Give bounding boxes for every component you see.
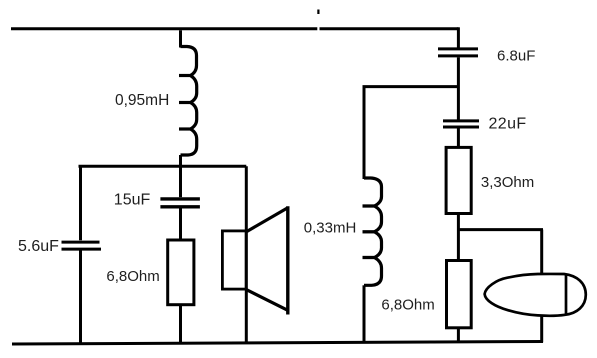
wire junction horizontal to tweeter	[458, 228, 543, 231]
svg-text:0,33mH: 0,33mH	[304, 220, 357, 237]
wire top right vertical into C 6.8uF	[457, 27, 460, 47]
inductor L2 tick 3	[363, 256, 375, 259]
wire from 15uF to R1	[179, 209, 182, 241]
inductor L2 tick 1	[363, 204, 375, 207]
wire tweeter vertical upper	[540, 230, 543, 275]
wire from R3 to bottom bus	[457, 328, 460, 342]
inductor L1 0,95mH coil	[181, 47, 197, 156]
resistor R3 6,8Ohm right box	[447, 261, 472, 328]
wire from 22uF to R2	[457, 128, 460, 147]
wire from R1 to bottom bus	[179, 305, 182, 344]
node tick artifact top center	[317, 10, 319, 15]
tweeter LS2 body	[485, 274, 586, 316]
resistor R1 6,8Ohm left box	[168, 240, 194, 305]
capacitor 15uF plates	[160, 199, 200, 207]
wire L2 vertical lead lower	[363, 285, 366, 343]
inductor L2 0,33mH coil	[364, 178, 382, 285]
tweeter LS2 chord	[565, 274, 568, 315]
inductor L1 tick 1	[179, 74, 191, 77]
wire L2 vertical lead upper	[363, 87, 366, 179]
wire mid-right horizontal to L2 branch	[363, 85, 459, 88]
svg-text:22uF: 22uF	[489, 116, 527, 133]
svg-text:3,3Ohm: 3,3Ohm	[481, 174, 534, 191]
inductor L1 tick 3	[179, 127, 191, 130]
wire tweeter vertical lower	[540, 316, 543, 343]
resistor R2 3,3Ohm box	[446, 147, 471, 213]
speaker LS1 horn mouth	[286, 206, 289, 314]
speaker LS1 horn top slant	[247, 208, 288, 232]
wire left box right vertical	[245, 166, 248, 343]
svg-text:6,8Ohm: 6,8Ohm	[106, 268, 159, 285]
svg-text:6.8uF: 6.8uF	[497, 48, 535, 65]
wire bottom horizontal bus	[12, 342, 543, 345]
inductor L2 tick 2	[363, 230, 375, 233]
wire left box left vertical upper	[79, 166, 82, 240]
speaker LS1 horn bottom slant	[247, 290, 288, 310]
wire top horizontal bus	[11, 27, 458, 30]
wire left box top horizontal	[79, 165, 247, 168]
wire lead from L1 down through left box top	[179, 155, 182, 197]
inductor L1 tick 2	[179, 101, 191, 104]
wire from R2 through junction to R3	[457, 214, 460, 261]
svg-text:5.6uF: 5.6uF	[18, 238, 59, 255]
wire lead from top bus into L1	[179, 30, 182, 47]
speaker LS1 woofer box	[222, 231, 246, 289]
capacitor 22uF plates	[443, 121, 479, 127]
wire from 6.8uF down to 22uF	[457, 57, 460, 119]
svg-text:0,95mH: 0,95mH	[115, 92, 169, 109]
wire left box left vertical lower	[79, 251, 82, 344]
svg-text:15uF: 15uF	[114, 191, 151, 208]
capacitor 6.8uF plates	[438, 49, 478, 56]
svg-text:6,8Ohm: 6,8Ohm	[381, 297, 434, 314]
capacitor 5.6uF plates	[62, 242, 102, 249]
